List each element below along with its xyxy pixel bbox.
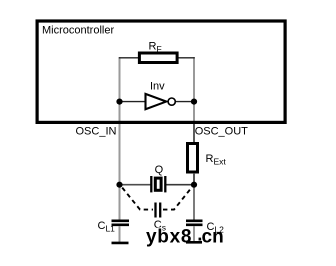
wire: left rail OSC_IN vertical xyxy=(119,57,121,220)
node dot: right rail crystal junction xyxy=(191,182,197,188)
svg-text:RF: RF xyxy=(149,41,162,55)
wire: R_F left lead xyxy=(119,57,139,59)
capacitor Cs right plate xyxy=(159,203,161,218)
crystal Q body xyxy=(155,178,161,190)
wire: crystal left lead xyxy=(120,184,152,186)
wire: CL2 to ground xyxy=(193,226,195,242)
microcontroller box xyxy=(37,21,285,122)
junction node: inverter output on right rail xyxy=(191,99,197,105)
capacitor CL1 bottom plate xyxy=(112,224,130,227)
junction node: inverter input on left rail xyxy=(116,99,122,105)
ground terminal right xyxy=(186,241,202,244)
wire: CL1 to ground xyxy=(119,226,121,242)
wire: crystal right lead xyxy=(166,184,195,186)
capacitor CL2 bottom plate xyxy=(186,224,203,227)
crystal Q right plate xyxy=(164,176,166,192)
wire: R_F right lead xyxy=(178,57,195,59)
dashed link left (to Cs) xyxy=(122,188,153,210)
node dot: left rail crystal junction xyxy=(116,182,122,188)
svg-text:Q: Q xyxy=(155,164,164,176)
crystal Q left plate xyxy=(150,176,152,192)
wire: OSC_OUT pin to R_Ext xyxy=(193,122,195,143)
wire: R_Ext bottom to node xyxy=(193,173,195,185)
svg-text:Inv: Inv xyxy=(150,81,165,93)
svg-text:CL2: CL2 xyxy=(207,221,225,235)
svg-text:ybx8: ybx8 xyxy=(146,226,192,247)
dashed link right (from Cs) xyxy=(163,186,193,210)
svg-text:RExt: RExt xyxy=(206,153,227,167)
svg-text:Microcontroller: Microcontroller xyxy=(42,25,114,37)
capacitor CL2 top plate xyxy=(186,220,203,223)
wire: inverter input xyxy=(120,101,146,103)
svg-text:OSC_OUT: OSC_OUT xyxy=(195,126,248,138)
ground terminal left xyxy=(112,242,129,245)
resistor R_Ext xyxy=(188,144,198,173)
capacitor Cs left plate xyxy=(154,203,156,218)
wire: inverter output xyxy=(176,101,194,103)
wire: right rail OSC_OUT vertical upper xyxy=(193,57,195,124)
capacitor CL1 top plate xyxy=(112,220,130,223)
resistor R_F xyxy=(139,53,177,63)
wire: node to CL2 xyxy=(193,185,195,220)
inverter U1 output bubble xyxy=(168,98,175,105)
inverter U1 (Inv) triangle xyxy=(146,94,167,109)
svg-text:OSC_IN: OSC_IN xyxy=(76,126,117,138)
